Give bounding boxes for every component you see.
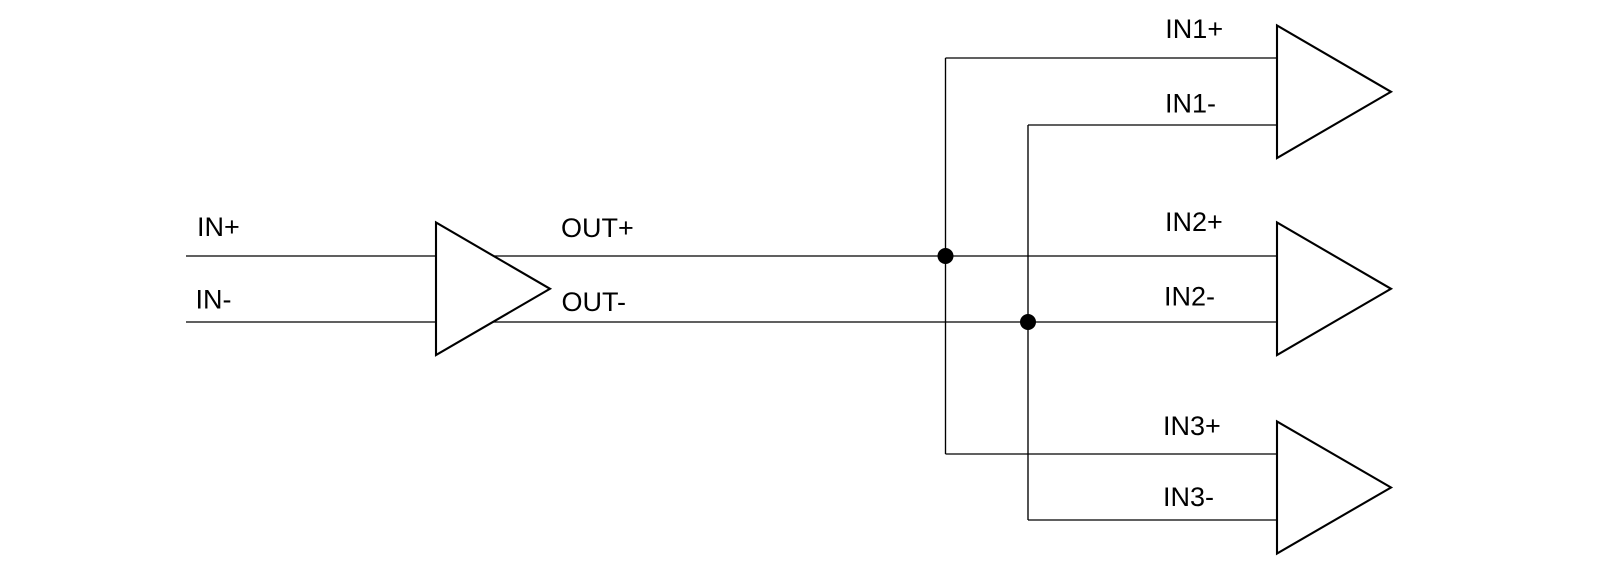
wire vertical OUT+ branch <box>945 58 947 454</box>
svg-text:OUT+: OUT+ <box>561 213 634 243</box>
svg-text:IN1-: IN1- <box>1165 89 1216 119</box>
wire IN+ / OUT+ / IN2+ net horizontal <box>186 255 1278 257</box>
svg-text:IN2-: IN2- <box>1164 282 1215 312</box>
receiver 3 triangle <box>1277 422 1391 554</box>
wire IN- / OUT- / IN2- net horizontal <box>186 321 1278 323</box>
svg-text:IN2+: IN2+ <box>1165 207 1223 237</box>
wire IN3+ horizontal <box>946 453 1279 455</box>
receiver 1 triangle <box>1277 26 1391 159</box>
junction dot node OUT- <box>1020 314 1036 330</box>
svg-text:IN+: IN+ <box>197 212 240 242</box>
wire IN1- horizontal <box>1028 124 1278 126</box>
junction dot node OUT+ <box>938 248 954 264</box>
svg-text:IN-: IN- <box>196 285 232 315</box>
driver amplifier triangle <box>436 223 550 356</box>
wire IN1+ horizontal <box>946 57 1279 59</box>
svg-text:IN1+: IN1+ <box>1165 14 1223 44</box>
svg-text:IN3+: IN3+ <box>1163 411 1221 441</box>
wire IN3- horizontal <box>1028 519 1278 521</box>
receiver 2 triangle <box>1277 223 1391 356</box>
wire vertical OUT- branch <box>1027 125 1029 520</box>
svg-text:OUT-: OUT- <box>562 287 627 317</box>
svg-text:IN3-: IN3- <box>1163 482 1214 512</box>
